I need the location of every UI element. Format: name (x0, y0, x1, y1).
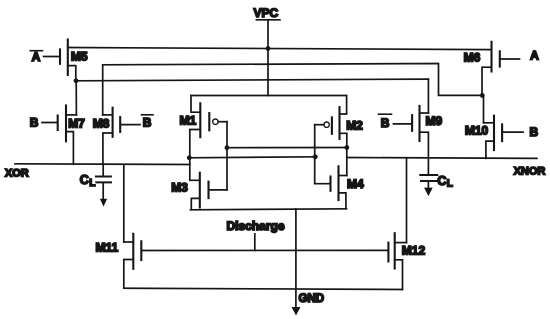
transistor M2 (315, 96, 363, 176)
svg-text:VPC: VPC (254, 6, 279, 20)
node M6 source junction (480, 93, 485, 98)
input Bbar (right) (379, 114, 392, 130)
svg-text:M3: M3 (171, 181, 188, 195)
svg-text:M5: M5 (71, 50, 88, 64)
svg-text:GND: GND (299, 293, 325, 305)
svg-text:C: C (80, 173, 89, 187)
wire XOR output line (15, 163, 190, 166)
wire rail M5source to M9 (76, 79, 428, 81)
svg-text:L: L (89, 178, 95, 189)
node M5 source junction (74, 78, 79, 83)
wire top rail M5-M6 (68, 48, 492, 50)
capacitor CL (left) (80, 164, 111, 206)
transistor M11 (96, 234, 142, 288)
input Abar (left) (30, 50, 42, 64)
wire XNOR output line (347, 157, 537, 160)
transistor M9 (394, 79, 443, 175)
svg-text:L: L (447, 178, 453, 189)
wire M1-M3 gate vertical (226, 122, 228, 190)
transistor M10 (465, 116, 523, 159)
svg-text:Discharge: Discharge (227, 219, 285, 233)
wire M5source down to M7 drain (75, 81, 77, 115)
svg-text:M11: M11 (96, 240, 119, 254)
wire M8 drain rail to M6 source node (103, 64, 482, 96)
svg-text:B: B (143, 116, 152, 130)
wire center bottom rail (191, 209, 347, 210)
svg-text:C: C (437, 174, 446, 188)
svg-text:M6: M6 (464, 51, 481, 65)
svg-text:M10: M10 (465, 124, 489, 138)
node VPC junction (266, 46, 271, 51)
wire upper cross rail (227, 147, 347, 149)
wire M2-M4 gate vertical (314, 125, 316, 184)
svg-text:M8: M8 (93, 116, 110, 130)
power terminal VPC (254, 6, 280, 20)
transistor M8 (93, 65, 140, 165)
svg-text:M4: M4 (347, 177, 364, 191)
wire center top rail (191, 95, 347, 97)
node lower rail right end (313, 154, 318, 159)
transistor M12 (388, 233, 425, 289)
transistor M7 (42, 106, 85, 165)
transistor M5 (44, 40, 88, 81)
transistor M3 (171, 158, 227, 210)
svg-text:M9: M9 (426, 114, 443, 128)
ground (292, 209, 325, 316)
wire XNOR line down to M12 drain (406, 159, 408, 243)
transistor M6 (464, 42, 520, 96)
svg-text:XNOR: XNOR (514, 165, 546, 177)
wire Discharge line M11 gate to M12 gate (141, 249, 388, 251)
node right output junction (344, 145, 349, 150)
capacitor CL (right) (420, 174, 453, 196)
transistor M4 (315, 166, 364, 209)
wire VPC vertical (267, 20, 269, 96)
svg-text:A: A (32, 50, 41, 64)
node left output junction (187, 155, 192, 160)
node upper rail left end (225, 145, 230, 150)
wire M6source down to M10 drain (483, 95, 485, 122)
svg-text:B: B (530, 125, 539, 139)
wire bottom ground rail (124, 288, 403, 289)
svg-text:M1: M1 (180, 114, 197, 128)
wire XOR line down to M11 drain (123, 164, 125, 242)
svg-text:A: A (530, 49, 539, 63)
svg-text:B: B (30, 115, 39, 129)
svg-text:M12: M12 (402, 243, 426, 257)
svg-text:B: B (381, 116, 390, 130)
input Discharge (227, 219, 285, 250)
input Bbar (left) (142, 115, 154, 130)
wire lower cross rail (189, 157, 315, 158)
svg-text:XOR: XOR (5, 167, 29, 179)
svg-text:M7: M7 (68, 116, 85, 130)
svg-text:M2: M2 (346, 118, 363, 132)
transistor M1 (180, 96, 228, 158)
